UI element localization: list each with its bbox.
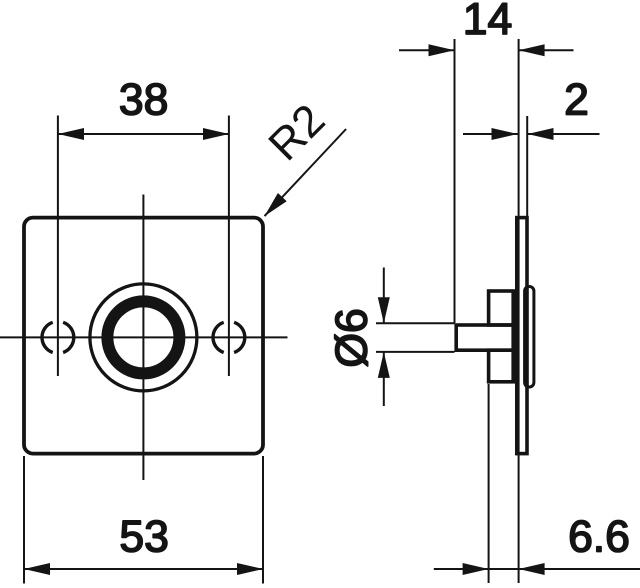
flange plate [517,218,527,454]
horizontal centerline [0,336,288,338]
diameter 6 extension lines [376,322,455,324]
2 extension line [526,116,528,218]
boss lower [489,350,514,382]
6.6 extension line [488,384,490,583]
pin [456,325,513,350]
pad (rounded, behind flange) [525,287,534,388]
2 dimension line [463,133,518,135]
hole centerlines / 38 extension lines [57,116,59,377]
outer circle [90,284,197,391]
38 dimension line [58,133,229,135]
svg-text:38: 38 [119,76,169,125]
14 dimension line [399,49,455,51]
svg-text:2: 2 [564,76,589,125]
plate outline [24,218,263,454]
svg-text:Ø6: Ø6 [327,308,376,367]
boss upper [489,291,514,325]
53 extension lines [23,456,25,584]
diameter 6 dimension line [383,268,385,324]
14 extension lines [454,39,456,323]
6.6 dimension line [434,568,640,570]
svg-text:14: 14 [463,0,513,44]
left hole arcs [42,322,53,352]
svg-text:6.6: 6.6 [568,513,630,562]
R2 leader line [265,129,347,216]
53 dimension line [24,568,263,570]
thick ring [107,301,179,373]
vertical centerline [142,195,144,481]
svg-text:53: 53 [119,513,169,562]
right hole arcs [213,322,224,352]
